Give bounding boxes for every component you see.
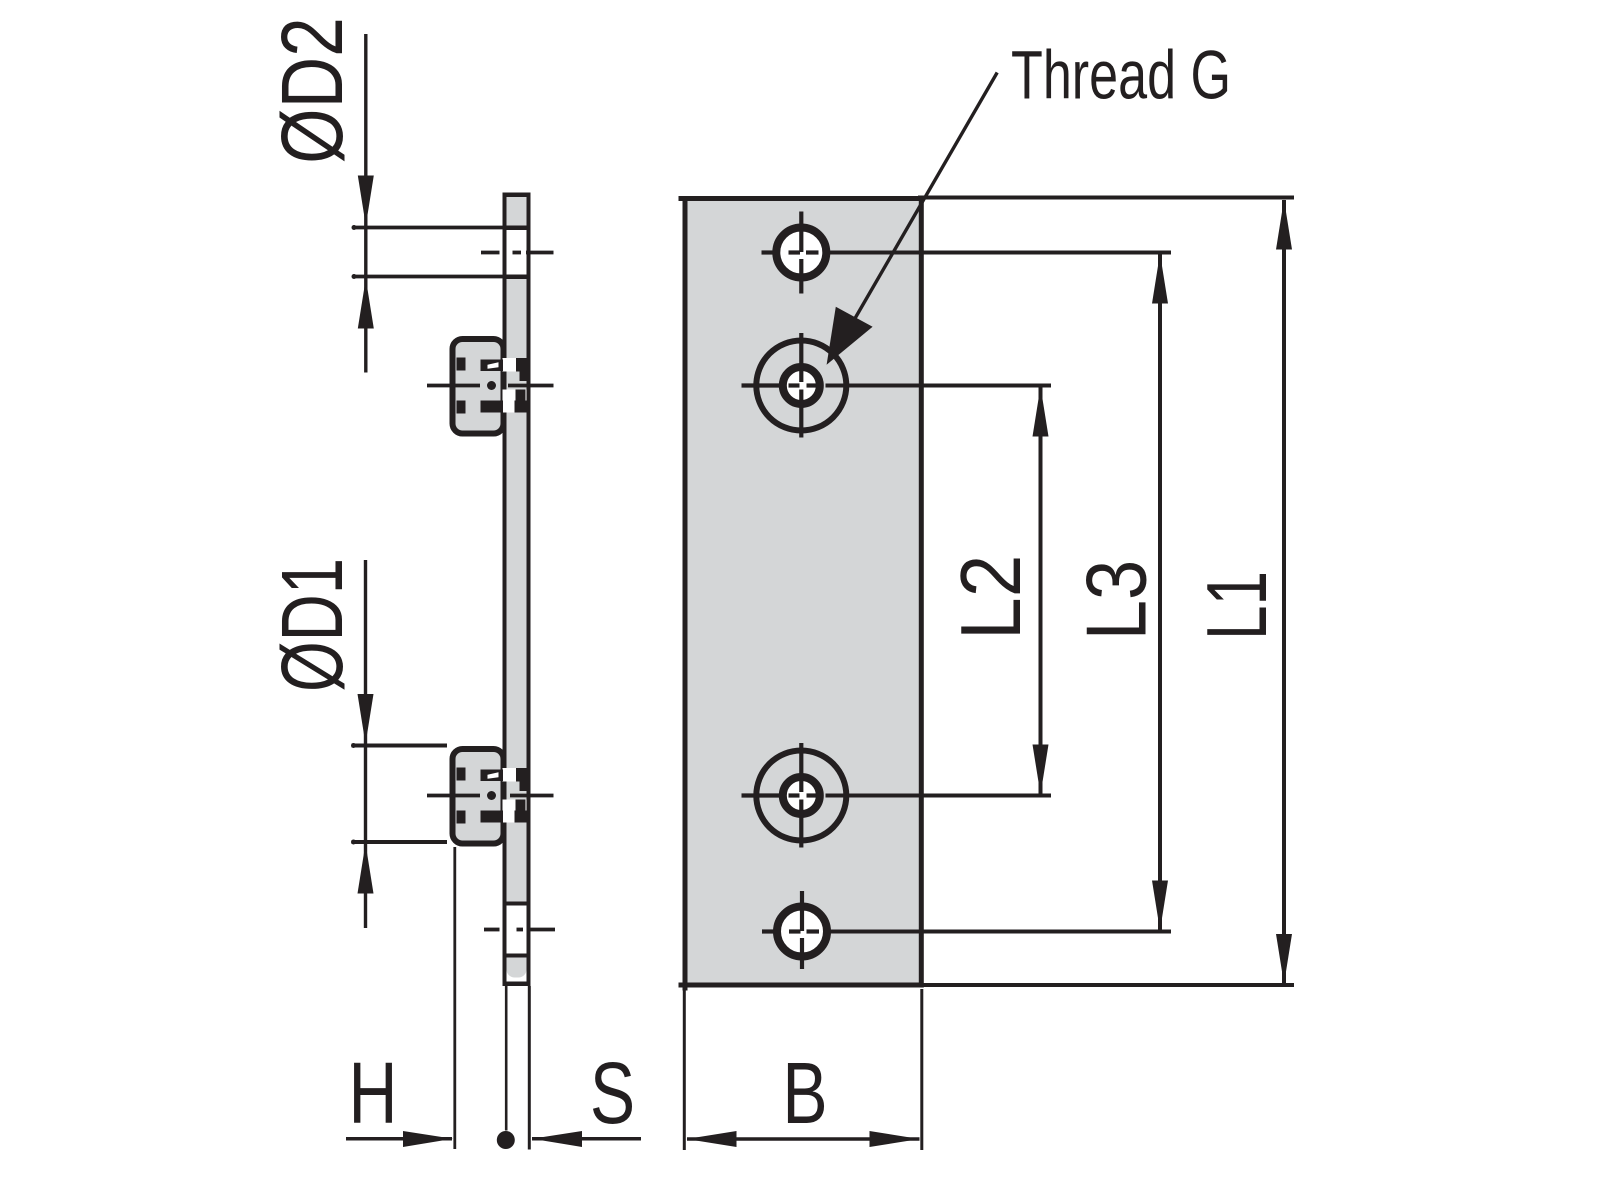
- clip C1 grip blocks in plate hole: [516, 358, 531, 372]
- L2 extension line bottom (from hole H3): [826, 794, 1052, 798]
- D1 dimension line vertical: [364, 560, 367, 928]
- L1 arrow up: [1276, 200, 1292, 250]
- plate side view: top cap: [503, 193, 531, 198]
- svg-text:ØD1: ØD1: [264, 558, 361, 692]
- D1 arrow down: [358, 694, 374, 744]
- clip C1 hole zone: white bands through plate: [503, 358, 527, 372]
- D2 extension line bottom: [353, 275, 507, 279]
- L3 extension line bottom (from hole H4): [827, 930, 1171, 934]
- side hole for H1: white cut: [507, 230, 527, 275]
- hole H2 centerline vertical: [799, 333, 803, 438]
- L2 extension line top (from hole H2): [826, 384, 1052, 388]
- B extension line left: [683, 989, 686, 1150]
- hole H3 centerline horizontal: [742, 793, 818, 797]
- L2 dimension line: [1039, 387, 1043, 794]
- D1 extension line bottom: [352, 840, 448, 844]
- B dimension line: [687, 1137, 920, 1141]
- bottom gray rounded end: [507, 958, 527, 978]
- L3 arrow up: [1152, 254, 1168, 304]
- clip C1 inner blocks: [457, 358, 504, 414]
- side hole H4 top edge: [507, 902, 527, 906]
- D2 arrow up: [358, 279, 374, 329]
- svg-text:L3: L3: [1069, 560, 1164, 640]
- D1 arrow up: [358, 844, 374, 894]
- S dimension line: [532, 1137, 641, 1141]
- S reference dot: [497, 1131, 515, 1149]
- side centerline at clip C2 level: [427, 794, 554, 798]
- plate side view: gray body: [503, 193, 531, 987]
- hole H3 (lower threaded hole) outer circle: [756, 751, 846, 841]
- hole H2 centerline horizontal: [742, 383, 818, 387]
- svg-text:L1: L1: [1189, 571, 1284, 640]
- S arrow left: [532, 1131, 582, 1147]
- leader line to thread hole: [850, 73, 997, 328]
- H extension line vertical: [453, 847, 456, 1149]
- svg-text:L2: L2: [944, 555, 1039, 640]
- D1 extension line top: [352, 744, 448, 748]
- clip C2 white wedge: [488, 772, 499, 779]
- L3 extension line top (from hole H1): [827, 251, 1172, 255]
- S extension line right: [528, 986, 531, 1150]
- side centerline at H4 level: [484, 928, 555, 932]
- D2 extension line top: [353, 226, 507, 230]
- clip nut C2 (lower) outline: [453, 749, 504, 844]
- L2 arrow up: [1033, 387, 1049, 437]
- H arrow right: [403, 1131, 453, 1147]
- svg-text:H: H: [348, 1044, 397, 1142]
- bottom white gap: [507, 958, 527, 982]
- hole H4 (bottom small hole): [777, 907, 827, 957]
- svg-text:ØD2: ØD2: [263, 17, 360, 164]
- L3 arrow down: [1152, 881, 1168, 931]
- clip C2 inner blocks: [457, 768, 504, 824]
- side centerline at H1 level: [481, 251, 554, 255]
- hole H4 centerline vertical: [800, 891, 804, 969]
- side hole H1 bottom edge: [507, 275, 527, 280]
- B arrow left: [687, 1131, 737, 1147]
- side hole H4 bottom edge: [507, 954, 527, 958]
- hole H4 centerline horizontal: [762, 929, 819, 933]
- plate corner overshoot bottom-left: [679, 983, 688, 988]
- L3 dimension line: [1158, 254, 1162, 930]
- svg-text:Thread G: Thread G: [1011, 36, 1231, 113]
- hole H3 thread inner circle: [783, 777, 820, 814]
- hole H1 (top small hole): [776, 228, 826, 278]
- plate side view: bottom cap: [503, 982, 531, 987]
- svg-text:B: B: [782, 1044, 827, 1142]
- D2 dimension line vertical: [364, 34, 367, 373]
- D2 arrow down: [358, 176, 374, 226]
- svg-text:S: S: [590, 1044, 635, 1142]
- plate side view: black walls: [503, 193, 507, 987]
- plate corner overshoot top-left: [679, 196, 688, 201]
- leader arrowhead: [827, 307, 873, 365]
- hole H3 centerline vertical: [799, 743, 803, 848]
- H dimension line: [346, 1137, 452, 1141]
- hole H2 thread inner circle: [783, 367, 820, 404]
- S extension line left (plate face): [505, 986, 508, 1131]
- L1 extension line top (plate top edge): [918, 196, 1294, 200]
- hole H2 (upper threaded hole) outer circle: [756, 341, 846, 431]
- B arrow right: [870, 1131, 920, 1147]
- L1 arrow down: [1276, 934, 1292, 984]
- side hole for H4: white cut: [507, 906, 527, 954]
- L2 arrow down: [1033, 745, 1049, 795]
- L1 extension line bottom (plate bottom edge): [918, 983, 1294, 987]
- side hole H1 top edge: [507, 226, 527, 231]
- clip C2 hole zone: white bands through plate: [503, 768, 527, 782]
- hole H1 centerline vertical: [799, 212, 803, 294]
- hole H1 centerline horizontal: [762, 250, 819, 254]
- clip C2 grip blocks in plate hole: [516, 768, 531, 782]
- plate front view body: [685, 199, 921, 986]
- L1 dimension line: [1282, 200, 1286, 984]
- B extension line right: [920, 989, 923, 1150]
- clip nut C1 (upper) outline: [453, 339, 504, 434]
- side centerline at clip C1 level: [427, 384, 554, 388]
- clip C1 white wedge: [488, 362, 499, 369]
